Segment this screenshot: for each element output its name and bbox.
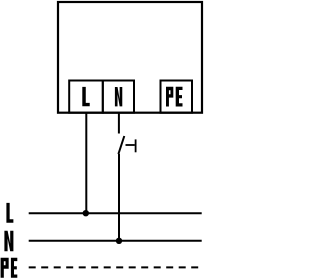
switch S blade	[118, 136, 124, 154]
label bus P of PE	[1, 258, 9, 278]
label terminal N	[115, 87, 122, 106]
label bus L	[6, 203, 13, 223]
terminal box PE	[161, 81, 193, 113]
bus line L	[29, 212, 202, 214]
terminal box L	[69, 81, 103, 113]
switch actuator link	[126, 144, 135, 146]
bus line PE dashed	[29, 266, 201, 268]
junction dot N	[116, 238, 122, 244]
label terminal P of PE	[166, 87, 173, 107]
label terminal E of PE	[176, 87, 183, 107]
bus line N	[29, 240, 202, 242]
device enclosure box	[58, 2, 202, 113]
label terminal L	[82, 87, 89, 106]
label bus N	[4, 231, 13, 251]
wire N lower vertical	[118, 154, 120, 241]
junction dot L	[83, 210, 89, 216]
terminal box N	[103, 81, 134, 113]
wire L vertical	[85, 113, 87, 214]
label bus E of PE	[11, 258, 17, 278]
wire N upper stub	[118, 113, 120, 134]
switch actuator bar	[135, 139, 137, 152]
